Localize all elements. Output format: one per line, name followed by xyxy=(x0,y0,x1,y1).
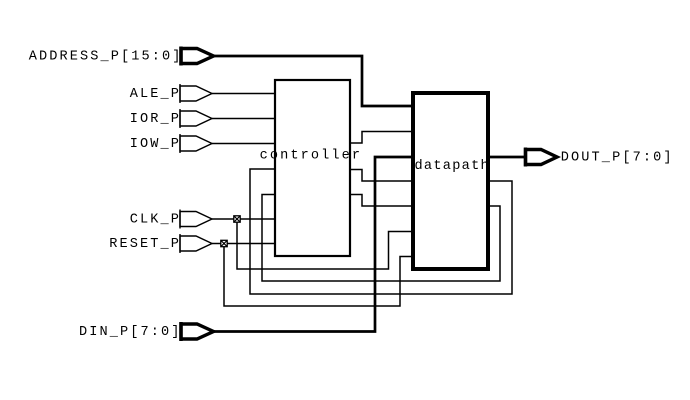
wire net controller.right194 to datapath.left206 xyxy=(350,195,411,207)
wire net A datapath.right181 to controller.left169 xyxy=(250,169,512,294)
port ADDRESS_P[15:0] xyxy=(181,47,214,66)
svg-text:CLK_P: CLK_P xyxy=(130,212,179,227)
svg-text:RESET_P: RESET_P xyxy=(109,237,179,252)
wire CLK to controller xyxy=(212,218,274,220)
svg-text:IOW_P: IOW_P xyxy=(130,137,179,152)
port IOW_P xyxy=(180,134,212,153)
block controller xyxy=(275,80,350,256)
junction CLK xyxy=(234,216,240,222)
port DOUT_P[7:0] xyxy=(526,148,558,167)
port RESET_P xyxy=(180,234,212,253)
port CLK_P xyxy=(180,210,212,229)
wire IOW xyxy=(212,143,274,145)
port DIN_P[7:0] xyxy=(181,322,214,341)
wire ADDRESS bus xyxy=(213,56,411,106)
wire ALE xyxy=(212,93,274,95)
port ALE_P xyxy=(180,84,212,103)
svg-text:IOR_P: IOR_P xyxy=(130,112,179,127)
svg-text:ADDRESS_P[15:0]: ADDRESS_P[15:0] xyxy=(29,49,181,64)
wire net controller.right169 to datapath.left181 xyxy=(350,170,411,182)
svg-text:datapath: datapath xyxy=(415,159,489,174)
wire CLK to datapath xyxy=(237,219,411,269)
wire IOR xyxy=(212,118,274,120)
junction RESET xyxy=(221,240,227,246)
wire DOUT bus xyxy=(490,156,524,159)
svg-text:DOUT_P[7:0]: DOUT_P[7:0] xyxy=(561,150,672,165)
wire DIN bus xyxy=(213,157,411,332)
wire RESET to controller xyxy=(212,243,274,245)
port IOR_P xyxy=(180,109,212,128)
wire net B datapath.right206 to controller.left194 xyxy=(262,195,500,282)
svg-text:ALE_P: ALE_P xyxy=(130,87,179,102)
block datapath U2 xyxy=(413,93,488,269)
wire RESET to datapath xyxy=(224,244,411,307)
wire net controller.right143 to datapath.left131 xyxy=(350,132,411,144)
